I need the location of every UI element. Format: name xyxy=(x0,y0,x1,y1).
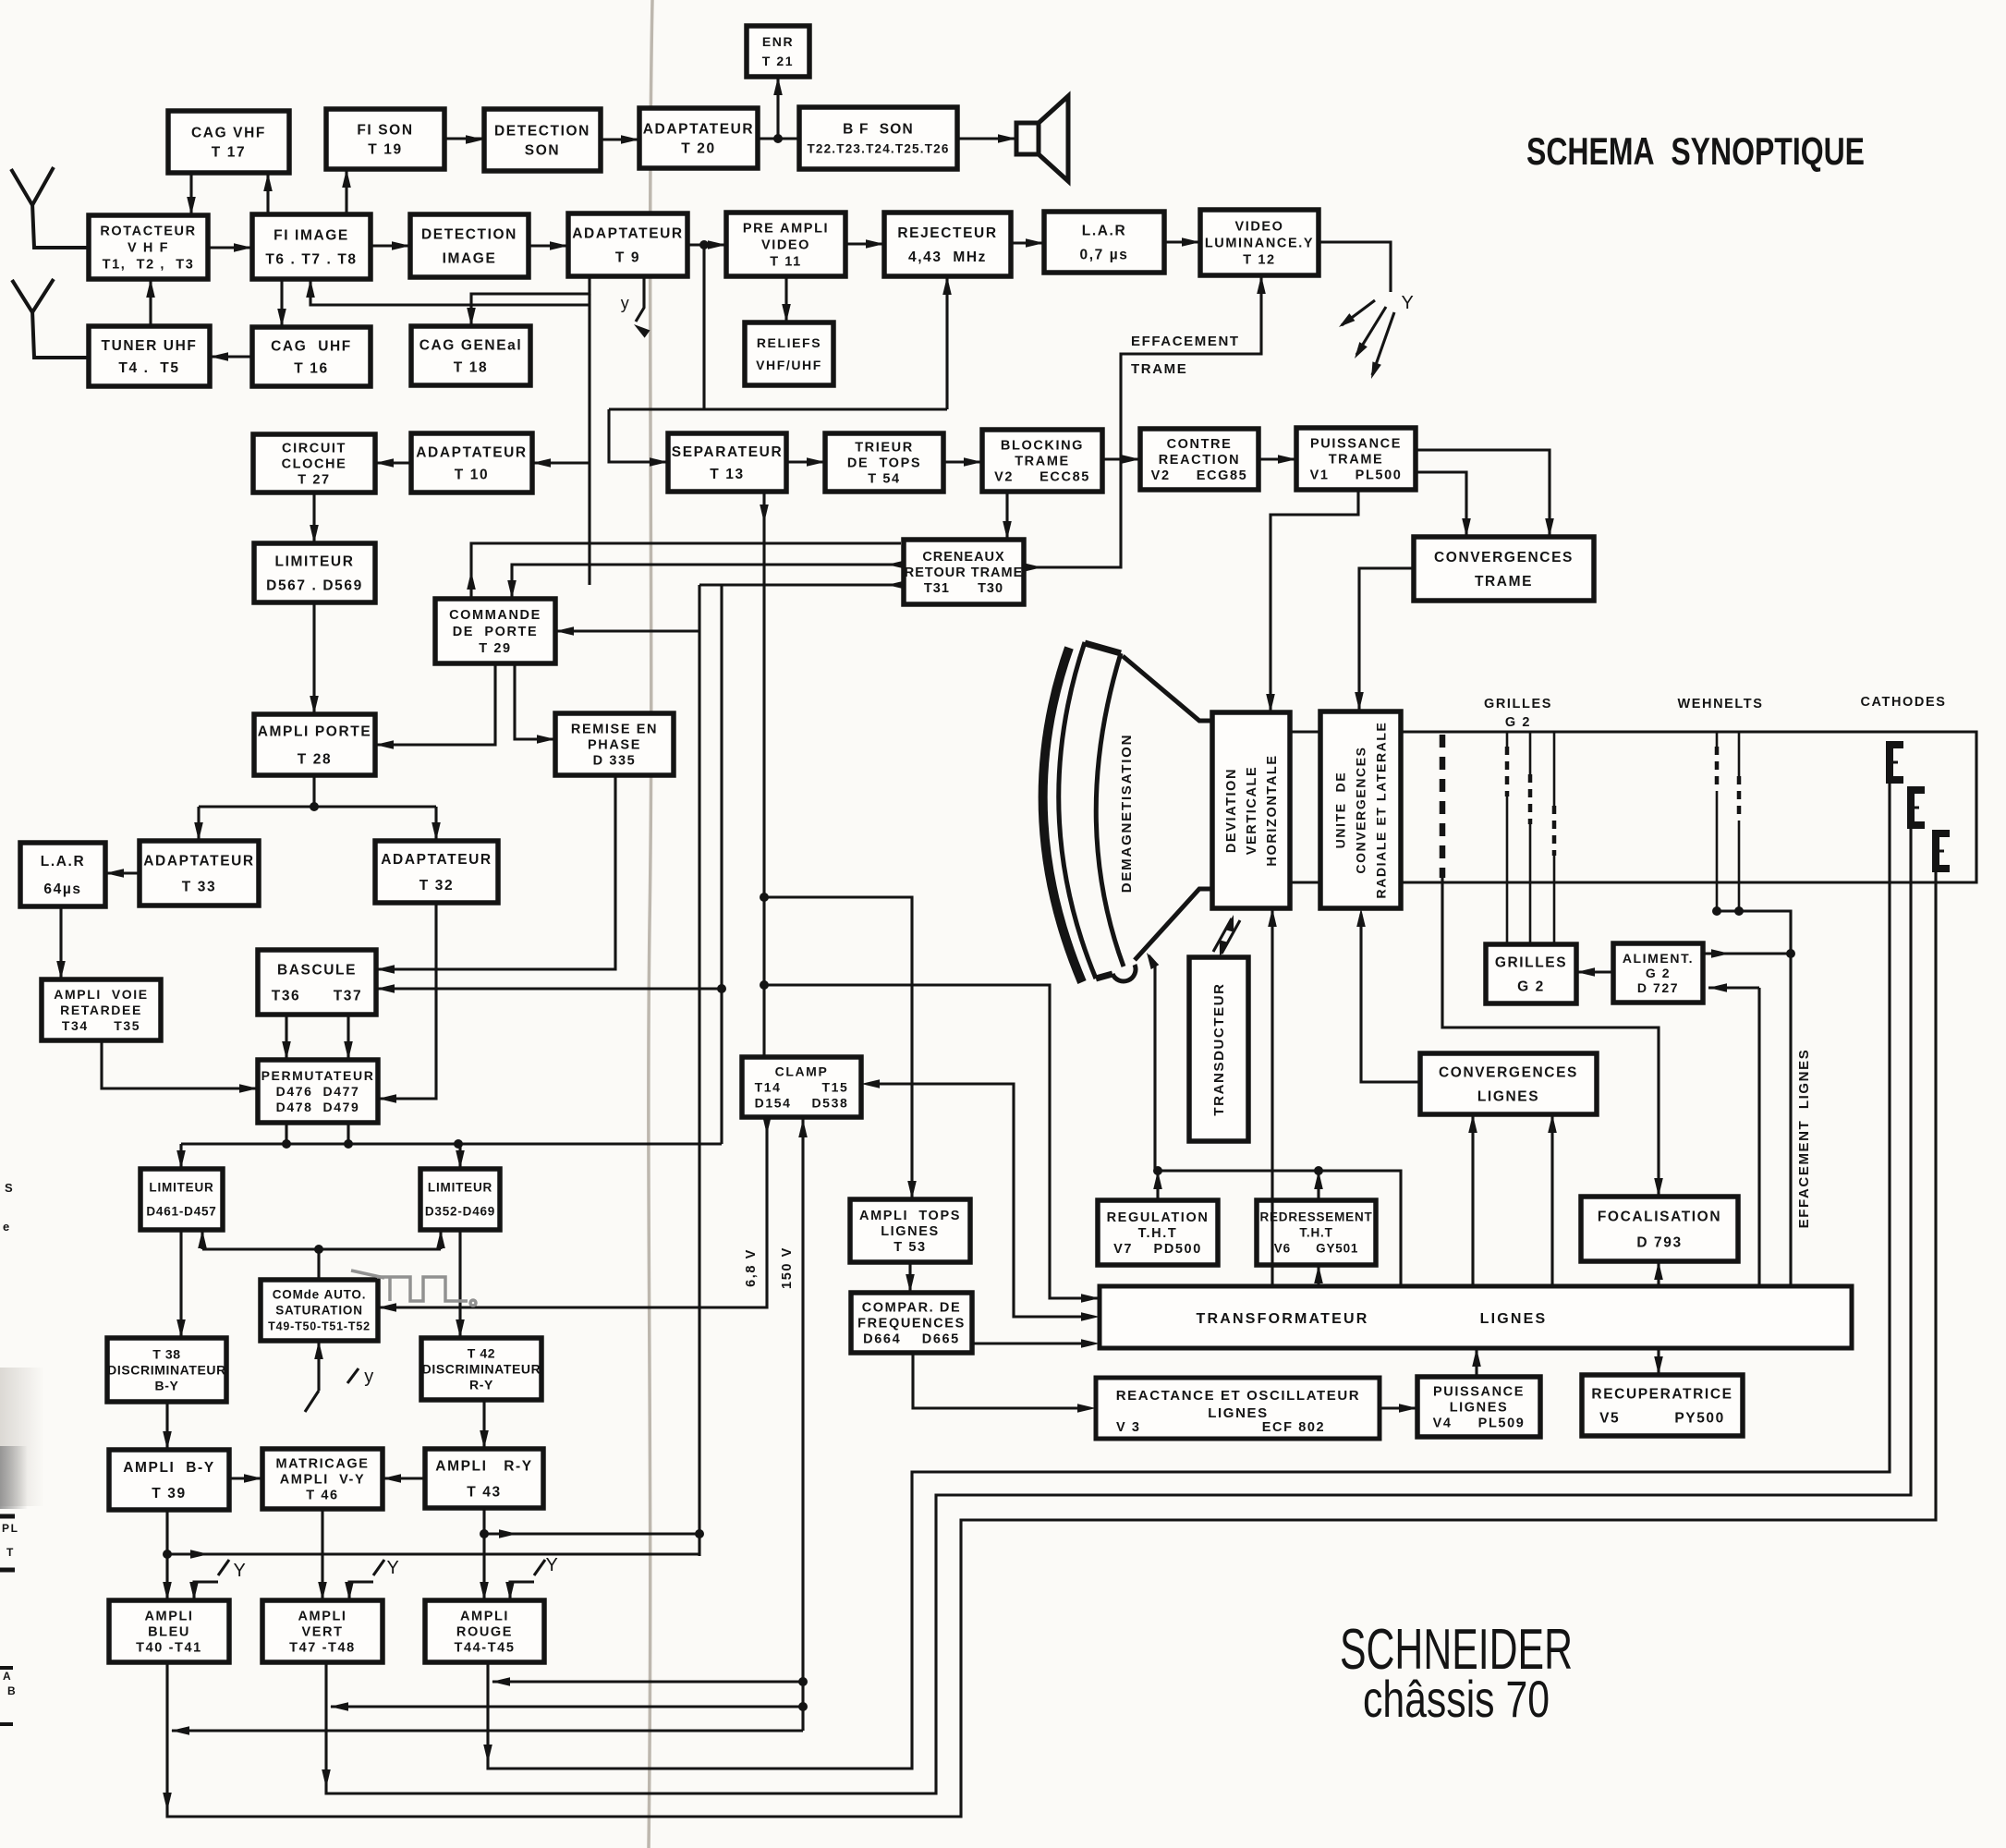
svg-text:V5 PY500: V5 PY500 xyxy=(1599,1410,1725,1426)
wire AMPLI ROUGE output to cathode xyxy=(483,779,1890,1769)
svg-text:L.A.R: L.A.R xyxy=(41,854,85,869)
box TRANSDUCTEUR xyxy=(1189,957,1248,1141)
svg-text:AMPLI VOIE: AMPLI VOIE xyxy=(54,987,148,1002)
cathode contact K1 xyxy=(1890,745,1903,780)
box REACTANCE ET OSCILLATEUR LIGNES V3 ECF802 xyxy=(1096,1378,1380,1439)
wire grille line 3 xyxy=(1553,732,1556,944)
box FI SON T19 xyxy=(326,109,444,169)
svg-text:CONVERGENCES: CONVERGENCES xyxy=(1439,1064,1578,1080)
svg-text:PERMUTATEUR: PERMUTATEUR xyxy=(261,1068,375,1083)
svg-text:LIGNES: LIGNES xyxy=(1477,1088,1539,1104)
box VIDEO LUMINANCE Y T12 xyxy=(1200,210,1319,275)
svg-text:DE PORTE: DE PORTE xyxy=(453,625,539,639)
box FI IMAGE T6 T7 T8 xyxy=(252,214,371,279)
wire AMPLI B-Y to MATRICAGE xyxy=(229,1474,262,1483)
svg-text:T44-T45: T44-T45 xyxy=(455,1641,516,1656)
svg-text:S: S xyxy=(5,1181,14,1195)
svg-text:T31 T30: T31 T30 xyxy=(924,581,1003,596)
wire CONVERGENCES TRAME to UNITE xyxy=(1355,568,1414,711)
svg-text:SCHEMA SYNOPTIQUE: SCHEMA SYNOPTIQUE xyxy=(1526,129,1865,173)
svg-text:T 54: T 54 xyxy=(868,472,900,487)
box DETECTION IMAGE xyxy=(410,214,529,277)
svg-text:UNITE DE: UNITE DE xyxy=(1332,772,1347,849)
wire node ENR branch xyxy=(773,77,783,139)
svg-text:T 17: T 17 xyxy=(212,144,246,160)
wire REMISE EN PHASE to BASCULE xyxy=(376,775,615,974)
svg-text:VERT: VERT xyxy=(301,1625,343,1640)
svg-text:T 16: T 16 xyxy=(294,360,328,376)
svg-text:B F SON: B F SON xyxy=(843,121,914,137)
svg-text:G 2: G 2 xyxy=(1517,979,1545,994)
svg-text:TRANSFORMATEUR: TRANSFORMATEUR xyxy=(1197,1311,1369,1327)
box UNITE DE CONVERGENCES RADIALE ET LATERALE xyxy=(1320,711,1401,908)
box LAR 0,7us xyxy=(1044,212,1164,273)
antenna VHF xyxy=(11,167,89,248)
wire CIRCUIT CLOCHE to LIMITEUR xyxy=(310,492,319,543)
wire CRENEAUX left out 2 xyxy=(699,580,906,590)
svg-text:T 20: T 20 xyxy=(681,140,715,156)
svg-text:RETARDEE: RETARDEE xyxy=(60,1003,142,1017)
wire TRANSFORMATEUR to DEVIATION xyxy=(1268,908,1277,1286)
box MATRICAGE AMPLI V-Y T46 xyxy=(262,1449,383,1509)
wire trunk branch to TRANSFORMATEUR xyxy=(764,985,1100,1303)
svg-text:AMPLI: AMPLI xyxy=(298,1610,346,1624)
wire AMPLI R-Y down to AMPLI ROUGE xyxy=(480,1508,489,1600)
box DETECTION SON xyxy=(484,109,601,171)
svg-text:V2 ECG85: V2 ECG85 xyxy=(1151,468,1248,483)
wire ADAPTATEUR T33 to LAR 64us xyxy=(105,869,140,878)
box PUISSANCE TRAME V1 PL500 xyxy=(1296,428,1416,490)
svg-text:D 727: D 727 xyxy=(1637,980,1679,995)
box ADAPTATEUR T32 xyxy=(375,841,498,903)
svg-text:T47 -T48: T47 -T48 xyxy=(289,1641,356,1656)
svg-text:T 32: T 32 xyxy=(419,878,454,894)
box AMPLI BLEU T40-T41 xyxy=(109,1600,229,1662)
wire R-Y bus right xyxy=(484,1529,699,1538)
svg-text:V6 GY501: V6 GY501 xyxy=(1274,1242,1358,1256)
wire wehnelt bus to ALIMENT xyxy=(1703,906,1795,1288)
svg-text:V H F: V H F xyxy=(128,241,169,256)
svg-text:TRAME: TRAME xyxy=(1131,361,1187,377)
wire COMMANDE to AMPLI PORTE xyxy=(375,663,495,749)
box TUNER UHF T4 T5 xyxy=(89,326,210,386)
svg-text:T.H.T: T.H.T xyxy=(1299,1226,1332,1240)
box AMPLI R-Y T43 xyxy=(425,1449,543,1508)
box CLAMP T14 T15 D154 D538 xyxy=(742,1057,861,1117)
svg-text:ADAPTATEUR: ADAPTATEUR xyxy=(416,444,527,460)
svg-text:GRILLES: GRILLES xyxy=(1484,697,1552,711)
svg-text:V2 ECC85: V2 ECC85 xyxy=(994,470,1090,485)
box CAG GENERAL T18 xyxy=(411,326,530,385)
svg-text:64µs: 64µs xyxy=(43,881,81,897)
svg-text:T4 . T5: T4 . T5 xyxy=(118,360,179,376)
box BASCULE T36 T37 xyxy=(258,950,376,1015)
wire G2 dashed feeder xyxy=(1440,735,1446,878)
svg-text:ADAPTATEUR: ADAPTATEUR xyxy=(381,852,492,868)
wire FI SON to DETECTION SON xyxy=(444,135,484,144)
wire BLOCKING to CRENEAUX xyxy=(1003,492,1012,540)
wire REJECTEUR to LAR 0,7us xyxy=(1011,238,1044,248)
wire AMPLI TOPS to COMPAR xyxy=(906,1262,915,1293)
box REGULATION THT V7 PD500 xyxy=(1098,1200,1218,1265)
svg-text:e: e xyxy=(3,1220,11,1234)
box LIMITEUR D461-D457 xyxy=(140,1169,223,1230)
svg-text:DE TOPS: DE TOPS xyxy=(847,456,921,471)
svg-text:CONTRE: CONTRE xyxy=(1167,437,1233,452)
wire VIDEO LUMINANCE output to Y xyxy=(1319,242,1391,292)
box AMPLI VOIE RETARDEE T34 T35 xyxy=(42,979,161,1040)
wire wehnelt line 1 xyxy=(1716,732,1719,911)
svg-text:BLOCKING: BLOCKING xyxy=(1001,439,1084,454)
wire 150V line xyxy=(171,1117,808,1735)
wire PUISSANCE TRAME to CONVERGENCES TRAME 2 xyxy=(1416,472,1471,537)
box RECUPERATRICE V5 PY500 xyxy=(1582,1375,1743,1436)
box CIRCUIT CLOCHE T27 xyxy=(253,434,375,492)
wire TRANSFORMATEUR to RECUPERATRICE xyxy=(1654,1348,1663,1375)
box CRENEAUX RETOUR TRAME T31 T30 xyxy=(904,540,1024,604)
svg-text:D461-D457: D461-D457 xyxy=(146,1205,216,1219)
svg-text:T 38: T 38 xyxy=(152,1346,180,1361)
svg-text:DISCRIMINATEUR: DISCRIMINATEUR xyxy=(422,1361,541,1376)
svg-text:D352-D469: D352-D469 xyxy=(425,1205,495,1219)
wire FI IMAGE to DETECTION IMAGE xyxy=(371,241,410,250)
svg-text:RELIEFS: RELIEFS xyxy=(757,335,821,350)
wire COMPAR to TRANSFORMATEUR xyxy=(972,1339,1100,1348)
svg-text:T 39: T 39 xyxy=(152,1486,186,1501)
svg-text:AMPLI B-Y: AMPLI B-Y xyxy=(123,1460,215,1476)
wire LIMITEUR D461 to T38 xyxy=(176,1230,186,1338)
box BLOCKING TRAME V2 ECC85 xyxy=(982,430,1102,492)
wire COMMANDE up to gate line xyxy=(467,543,901,599)
svg-text:D154 D538: D154 D538 xyxy=(755,1095,849,1110)
svg-text:LIGNES: LIGNES xyxy=(1450,1401,1509,1416)
box ADAPTATEUR T10 xyxy=(411,433,532,492)
svg-text:T 27: T 27 xyxy=(298,473,330,488)
wire DETECTION SON to ADAPTATEUR T20 xyxy=(601,135,639,144)
box CONVERGENCES TRAME xyxy=(1414,537,1594,601)
svg-text:BLEU: BLEU xyxy=(148,1625,190,1640)
svg-text:6,8 V: 6,8 V xyxy=(744,1248,759,1287)
svg-text:AMPLI V-Y: AMPLI V-Y xyxy=(280,1473,366,1488)
wire PERMUTATEUR outputs bus xyxy=(176,1123,722,1169)
svg-text:CRENEAUX: CRENEAUX xyxy=(922,550,1004,565)
svg-text:T40 -T41: T40 -T41 xyxy=(136,1641,202,1656)
wire BLOCKING to CONTRE REACTION xyxy=(1102,455,1140,464)
wire ADAPTATEUR T9 down to ADAPTATEUR T10 xyxy=(532,294,590,585)
svg-text:150 V: 150 V xyxy=(780,1246,795,1289)
wire G2 focus line to FOCALISATION xyxy=(1442,878,1663,1197)
svg-text:L.A.R: L.A.R xyxy=(1082,223,1126,238)
wire SEPARATEUR to TRIEUR xyxy=(786,457,825,467)
svg-text:ECF 802: ECF 802 xyxy=(1262,1420,1325,1435)
speaker xyxy=(1016,96,1068,181)
wire DETECTION IMAGE to ADAPTATEUR T9 xyxy=(529,241,568,250)
svg-text:COMde AUTO.: COMde AUTO. xyxy=(273,1288,367,1302)
svg-text:SEPARATEUR: SEPARATEUR xyxy=(672,444,784,460)
svg-text:T22.T23.T24.T25.T26: T22.T23.T24.T25.T26 xyxy=(807,141,949,155)
svg-text:PUISSANCE: PUISSANCE xyxy=(1433,1385,1525,1400)
box REMISE EN PHASE D335 xyxy=(555,713,674,775)
svg-text:DETECTION: DETECTION xyxy=(494,123,590,139)
wire trunk branch to AMPLI TOPS xyxy=(764,897,917,1199)
wire COMPAR to REACTANCE xyxy=(913,1353,1096,1413)
wire BF SON to speaker xyxy=(957,134,1016,143)
svg-text:T 29: T 29 xyxy=(479,641,511,656)
wire T42 to AMPLI R-Y xyxy=(480,1400,489,1449)
svg-text:T 13: T 13 xyxy=(710,467,744,482)
svg-text:CATHODES: CATHODES xyxy=(1860,695,1946,710)
wire FI IMAGE to FI SON xyxy=(342,169,351,214)
svg-text:CLOCHE: CLOCHE xyxy=(282,457,347,472)
svg-text:FI IMAGE: FI IMAGE xyxy=(274,227,349,243)
svg-text:A: A xyxy=(3,1670,12,1683)
svg-text:V4 PL509: V4 PL509 xyxy=(1433,1416,1526,1431)
svg-text:V1 PL500: V1 PL500 xyxy=(1310,468,1403,483)
svg-text:y: y xyxy=(364,1367,375,1387)
svg-text:LIGNES: LIGNES xyxy=(1480,1311,1548,1327)
wire PRE AMPLI to RELIEFS xyxy=(782,276,791,322)
svg-text:y: y xyxy=(621,294,631,312)
box CAG UHF T16 xyxy=(252,327,371,386)
svg-text:Y: Y xyxy=(234,1561,248,1581)
svg-text:0,7 µs: 0,7 µs xyxy=(1079,247,1128,262)
wire grille line 1 xyxy=(1506,732,1509,944)
svg-text:G 2: G 2 xyxy=(1505,715,1531,730)
svg-text:RADIALE ET LATERALE: RADIALE ET LATERALE xyxy=(1373,722,1388,899)
svg-text:VERTICALE: VERTICALE xyxy=(1245,766,1259,856)
wire PUISSANCE TRAME to DEVIATION xyxy=(1266,490,1358,712)
cathode contact K3 xyxy=(1936,833,1950,869)
svg-text:LIGNES: LIGNES xyxy=(1208,1405,1268,1421)
svg-text:LIGNES: LIGNES xyxy=(881,1224,940,1239)
svg-text:AMPLI PORTE: AMPLI PORTE xyxy=(258,723,372,739)
svg-text:ENR: ENR xyxy=(762,34,794,49)
box ROTACTEUR VHF T1 T2 T3 xyxy=(89,215,208,279)
svg-text:T 53: T 53 xyxy=(894,1240,926,1255)
svg-text:GRILLES: GRILLES xyxy=(1495,954,1567,970)
svg-text:VIDEO: VIDEO xyxy=(1234,220,1283,235)
svg-text:SON: SON xyxy=(525,142,560,158)
svg-text:ADAPTATEUR: ADAPTATEUR xyxy=(572,225,683,241)
wire AMPLI VOIE RETARDEE to PERMUTATEUR xyxy=(102,1040,258,1093)
svg-text:IMAGE: IMAGE xyxy=(443,250,497,266)
wire AMPLI B-Y down to AMPLI BLEU xyxy=(163,1510,172,1600)
svg-text:D478 D479: D478 D479 xyxy=(276,1100,360,1114)
svg-text:T 42: T 42 xyxy=(468,1345,495,1360)
svg-text:LIMITEUR: LIMITEUR xyxy=(428,1181,492,1195)
box BF SON T22-T26 xyxy=(799,107,957,169)
wire BASCULE to PERMUTATEUR 1 xyxy=(282,1015,291,1060)
svg-text:T 18: T 18 xyxy=(454,359,488,375)
svg-text:ADAPTATEUR: ADAPTATEUR xyxy=(643,121,754,137)
box ADAPTATEUR T33 xyxy=(140,841,259,906)
wire AMPLI BLEU output to cathode xyxy=(163,868,1936,1817)
svg-text:TRANSDUCTEUR: TRANSDUCTEUR xyxy=(1211,982,1227,1115)
paper fold crease xyxy=(649,0,652,1848)
box AMPLI VERT T47-T48 xyxy=(262,1600,383,1662)
svg-text:CONVERGENCES: CONVERGENCES xyxy=(1434,550,1574,565)
svg-text:T 33: T 33 xyxy=(182,879,216,894)
wire electrode rail loop xyxy=(1401,732,1976,882)
wire LAR 64us to AMPLI VOIE RETARDEE xyxy=(56,906,66,979)
wire ADAPTATEUR T10 to CIRCUIT CLOCHE xyxy=(375,458,411,468)
wire grille line 2 xyxy=(1529,732,1532,944)
CRT demagnetisation band and funnel xyxy=(1043,642,1212,982)
svg-text:LUMINANCE.Y: LUMINANCE.Y xyxy=(1205,237,1314,251)
box COMPAR DE FREQUENCES D664 D665 xyxy=(851,1293,972,1353)
wire CAG VHF to ROTACTEUR xyxy=(187,173,196,215)
svg-text:CAG UHF: CAG UHF xyxy=(271,338,352,354)
svg-text:TRIEUR: TRIEUR xyxy=(855,441,914,456)
svg-text:COMPAR. DE: COMPAR. DE xyxy=(862,1301,962,1316)
svg-text:TUNER UHF: TUNER UHF xyxy=(102,338,198,354)
svg-text:AMPLI: AMPLI xyxy=(144,1610,193,1624)
svg-text:PUISSANCE: PUISSANCE xyxy=(1310,437,1402,452)
box CONVERGENCES LIGNES xyxy=(1420,1053,1597,1114)
wire T38 to AMPLI B-Y xyxy=(163,1402,172,1450)
wire CRENEAUX right out effacement trame xyxy=(1024,275,1266,572)
hand-drawn pulse sketch (grey) xyxy=(351,1270,476,1306)
wire CONTRE REACTION to PUISSANCE TRAME xyxy=(1258,455,1296,464)
svg-text:DEVIATION: DEVIATION xyxy=(1224,768,1239,853)
wire PUISSANCE LIGNES to TRANSFORMATEUR xyxy=(1472,1348,1481,1377)
wire branch to BASCULE xyxy=(376,585,726,1144)
svg-text:CAG GENEal: CAG GENEal xyxy=(419,337,523,353)
svg-text:CIRCUIT: CIRCUIT xyxy=(282,442,346,456)
wire REACTANCE to PUISSANCE LIGNES xyxy=(1380,1404,1417,1413)
svg-text:FI SON: FI SON xyxy=(357,122,413,138)
svg-text:COMMANDE: COMMANDE xyxy=(449,608,541,623)
svg-text:REJECTEUR: REJECTEUR xyxy=(897,225,997,241)
wire deflection arrow 1 xyxy=(1336,300,1375,331)
box PUISSANCE LIGNES V4 PL509 xyxy=(1417,1377,1540,1437)
wire B-Y bus right xyxy=(167,1550,699,1559)
svg-text:T 46: T 46 xyxy=(306,1489,338,1503)
box FOCALISATION D793 xyxy=(1581,1197,1738,1261)
svg-text:T: T xyxy=(6,1546,15,1559)
svg-text:TRAME: TRAME xyxy=(1329,453,1384,468)
svg-text:REMISE EN: REMISE EN xyxy=(571,723,658,737)
svg-text:R-Y: R-Y xyxy=(469,1377,493,1392)
svg-text:PRE AMPLI: PRE AMPLI xyxy=(743,222,829,237)
svg-text:ROUGE: ROUGE xyxy=(456,1625,513,1640)
svg-text:G 2: G 2 xyxy=(1646,966,1671,980)
wire video trunk to SEPARATEUR and REJECTEUR xyxy=(609,245,952,467)
svg-text:T.H.T: T.H.T xyxy=(1138,1226,1178,1241)
box TRANSFORMATEUR LIGNES xyxy=(1100,1286,1852,1348)
wire y takeoff at T9 xyxy=(631,276,650,338)
wire CAG general feedback to FI IMAGE xyxy=(306,279,590,305)
svg-text:AMPLI: AMPLI xyxy=(460,1610,509,1624)
svg-text:D476 D477: D476 D477 xyxy=(276,1084,360,1099)
svg-text:PHASE: PHASE xyxy=(588,738,641,753)
wire TRANSFORMATEUR to CONVERGENCES LIGNES 2 xyxy=(1548,1114,1557,1286)
svg-text:DISCRIMINATEUR: DISCRIMINATEUR xyxy=(107,1362,226,1377)
wire ADAPTATEUR T20 to BF SON xyxy=(758,134,799,143)
box ADAPTATEUR T20 xyxy=(639,108,758,168)
svg-text:B-Y: B-Y xyxy=(155,1378,179,1392)
wire TRANSFORMATEUR to CONVERGENCES LIGNES 1 xyxy=(1468,1114,1477,1286)
svg-text:FREQUENCES: FREQUENCES xyxy=(857,1317,966,1331)
box LAR 64us xyxy=(20,843,105,906)
svg-text:ALIMENT.: ALIMENT. xyxy=(1623,951,1694,966)
svg-text:T 10: T 10 xyxy=(455,467,489,482)
box AMPLI TOPS LIGNES T53 xyxy=(850,1199,970,1262)
wire ADAPTATEUR T9 to CAG GENERAL xyxy=(467,276,590,326)
box AMPLI PORTE T28 xyxy=(254,714,375,775)
svg-text:DEMAGNETISATION: DEMAGNETISATION xyxy=(1119,734,1135,894)
wire TRIEUR to BLOCKING xyxy=(943,457,982,467)
box GRILLES G2 xyxy=(1486,944,1576,1003)
box TRIEUR DE TOPS T54 xyxy=(825,433,943,492)
box CAG VHF T17 xyxy=(168,111,289,173)
svg-text:VHF/UHF: VHF/UHF xyxy=(756,358,822,372)
wire AMPLI PORTE split to adaptateurs xyxy=(194,775,441,841)
wire AMPLI R-Y to MATRICAGE xyxy=(383,1474,425,1483)
wire AMPLI VERT output to cathode xyxy=(322,824,1911,1793)
box SEPARATEUR T13 xyxy=(668,433,786,492)
svg-text:D664 D665: D664 D665 xyxy=(863,1332,960,1347)
wire TUNER UHF to ROTACTEUR xyxy=(146,279,155,326)
box RELIEFS VHF/UHF xyxy=(745,322,833,385)
wire ADAPTATEUR T32 to PERMUTATEUR xyxy=(378,903,436,1103)
wire LIMITEUR D352 to T42 xyxy=(456,1230,465,1338)
svg-text:T1, T2 , T3: T1, T2 , T3 xyxy=(103,258,195,273)
wire Y input ampli bleu xyxy=(189,1560,229,1600)
wire y input to COMMANDE AUTO xyxy=(305,1341,359,1412)
svg-text:T 43: T 43 xyxy=(467,1484,501,1500)
box CONTRE REACTION V2 ECG85 xyxy=(1140,429,1258,490)
svg-text:ROTACTEUR: ROTACTEUR xyxy=(100,225,196,239)
wire wehnelt line 2 xyxy=(1738,732,1741,911)
svg-text:4,43 MHz: 4,43 MHz xyxy=(908,249,987,265)
wire TRANSFORMATEUR to REDRESSEMENT xyxy=(1314,1265,1323,1286)
svg-text:B: B xyxy=(7,1684,17,1697)
wire deflection arrow 2 xyxy=(1351,307,1386,361)
wire long gate line down xyxy=(555,585,704,1556)
svg-text:HORIZONTALE: HORIZONTALE xyxy=(1265,754,1280,866)
box ALIMENT G2 D727 xyxy=(1613,943,1703,1003)
svg-text:WEHNELTS: WEHNELTS xyxy=(1677,697,1763,711)
wire ROTACTEUR to FI IMAGE xyxy=(208,243,252,252)
wire MATRICAGE to AMPLI VERT xyxy=(318,1509,327,1600)
wire BASCULE to PERMUTATEUR 2 xyxy=(344,1015,353,1060)
svg-text:D 335: D 335 xyxy=(593,754,637,769)
svg-text:PL: PL xyxy=(2,1522,19,1535)
svg-text:ADAPTATEUR: ADAPTATEUR xyxy=(143,853,254,869)
svg-text:REGULATION: REGULATION xyxy=(1107,1210,1210,1225)
box T38 DISCRIMINATEUR B-Y xyxy=(107,1338,226,1402)
wire FI IMAGE to CAG VHF xyxy=(263,173,273,214)
wire Y input ampli rouge xyxy=(505,1560,545,1600)
cathode contact K2 xyxy=(1911,790,1925,825)
box ADAPTATEUR T9 xyxy=(568,213,687,276)
svg-text:V 3: V 3 xyxy=(1116,1420,1141,1435)
box ENR T21 xyxy=(747,26,809,77)
wire REGULATION REDRESSEMENT bus xyxy=(1153,1166,1401,1286)
wire PUISSANCE TRAME to CONVERGENCES TRAME 1 xyxy=(1416,450,1554,537)
wire ALIMENT to GRILLES xyxy=(1576,967,1613,977)
svg-text:VIDEO: VIDEO xyxy=(761,238,810,253)
svg-text:D567 . D569: D567 . D569 xyxy=(266,577,363,593)
wire ADAPTATEUR T9 to PRE AMPLI VIDEO xyxy=(687,240,726,249)
svg-text:LIMITEUR: LIMITEUR xyxy=(275,553,355,569)
wire CRENEAUX left out 1 to COMMANDE DE PORTE xyxy=(507,560,906,599)
svg-text:Y: Y xyxy=(387,1558,401,1578)
svg-text:CONVERGENCES: CONVERGENCES xyxy=(1353,746,1368,873)
svg-text:EFFACEMENT: EFFACEMENT xyxy=(1131,334,1240,349)
box COMMANDE DE PORTE T29 xyxy=(435,599,555,663)
